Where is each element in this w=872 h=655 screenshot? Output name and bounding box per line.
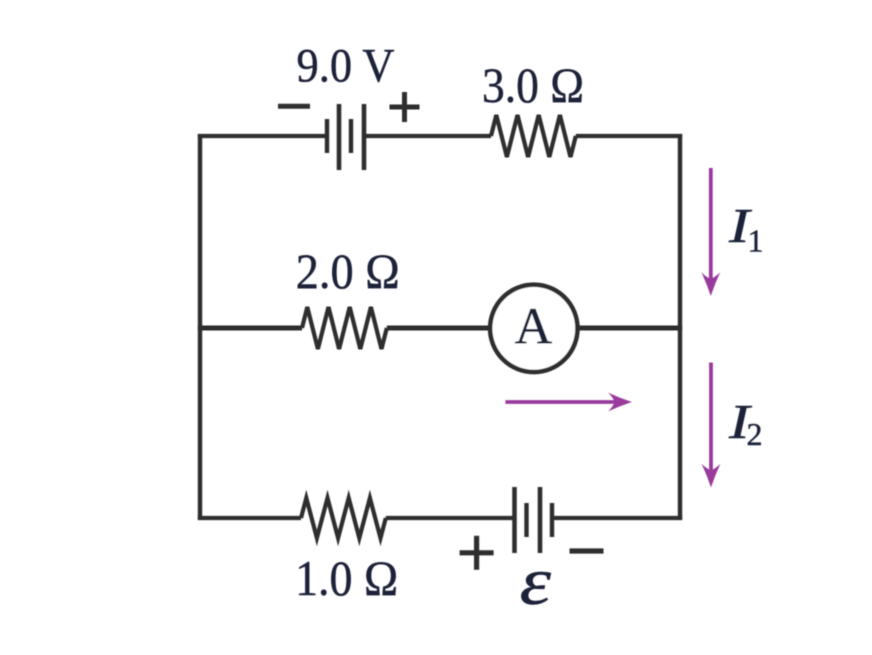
label: I1 [728, 199, 764, 259]
current direction arrow (middle branch, purple, pointing right) [505, 393, 631, 412]
wire: middle branch, center segment [387, 326, 492, 331]
wire: middle branch, right segment [578, 326, 683, 331]
polarity mark + of battery B1 [390, 92, 420, 122]
current arrow I1 (purple, downward, right of top loop) [701, 168, 720, 296]
wire: left vertical (connects top, middle, bottom branches) [198, 134, 202, 520]
battery B1 (9.0 V) [327, 104, 364, 170]
label: I2 [728, 395, 763, 452]
wire: bottom branch, right segment [552, 516, 682, 520]
svg-text:A: A [515, 299, 553, 356]
resistor R_top (3.0 Ω) [491, 115, 576, 157]
svg-text:2.0 Ω: 2.0 Ω [296, 244, 400, 299]
polarity mark + of battery B2 [460, 536, 494, 570]
resistor R_bot (1.0 Ω) [301, 498, 386, 538]
svg-text:1.0 Ω: 1.0 Ω [295, 551, 398, 606]
svg-text:9.0 V: 9.0 V [297, 40, 395, 93]
svg-text:ε: ε [520, 544, 552, 619]
wire: top branch, left segment [198, 134, 327, 138]
wire: bottom branch, left segment [198, 516, 301, 520]
wire: right vertical (connects top, middle, bottom branches) [678, 134, 682, 520]
polarity mark − of battery B1 [278, 104, 310, 109]
wire: middle branch, left segment [198, 326, 302, 331]
current arrow I2 (purple, downward, right of bottom loop) [702, 363, 721, 488]
wire: top branch, middle segment [364, 134, 491, 138]
battery B2 (emf ε) [515, 487, 553, 553]
svg-text:2: 2 [747, 416, 763, 452]
polarity mark − of battery B2 [570, 548, 604, 553]
wire: top branch, right segment [576, 134, 682, 138]
resistor R_mid (2.0 Ω) [302, 307, 387, 349]
wire: bottom branch, middle segment [386, 516, 515, 520]
ammeter A [490, 285, 577, 372]
svg-text:3.0 Ω: 3.0 Ω [482, 58, 584, 113]
svg-text:1: 1 [748, 223, 764, 259]
